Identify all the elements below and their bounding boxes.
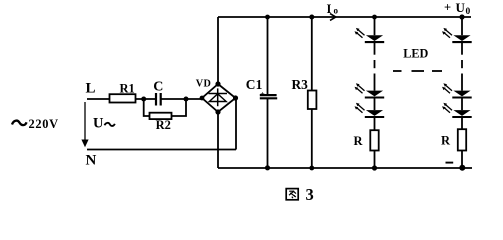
- svg-text:R: R: [441, 134, 451, 148]
- svg-text:+: +: [444, 1, 451, 15]
- svg-text:LED: LED: [403, 47, 428, 61]
- svg-text:U: U: [456, 0, 466, 15]
- svg-text:0: 0: [466, 7, 471, 17]
- svg-text:R2: R2: [156, 118, 171, 132]
- svg-text:C: C: [153, 80, 163, 95]
- svg-text:R: R: [354, 134, 364, 148]
- svg-text:L: L: [86, 81, 96, 97]
- svg-text:R1: R1: [120, 82, 135, 96]
- svg-text:U: U: [93, 116, 104, 132]
- svg-text:I: I: [327, 2, 332, 16]
- svg-text:220V: 220V: [29, 117, 59, 131]
- svg-text:3: 3: [306, 185, 314, 204]
- svg-text:o: o: [334, 6, 339, 16]
- svg-text:VD: VD: [196, 78, 211, 89]
- svg-text:+: +: [260, 89, 265, 98]
- svg-text:R3: R3: [292, 77, 309, 92]
- svg-text:N: N: [86, 153, 97, 169]
